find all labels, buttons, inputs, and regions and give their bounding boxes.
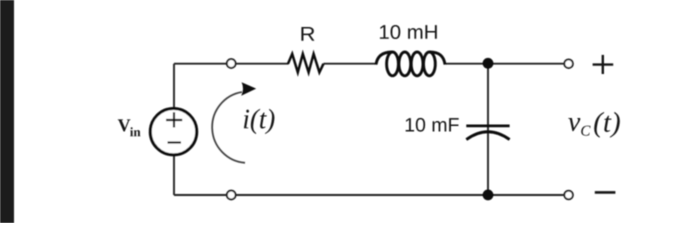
node circle bottom-left [227,191,236,200]
wire: left branch [173,64,175,195]
source minus sign [168,141,182,143]
capacitor C1 (10 mF) straight plate [466,125,509,128]
wire: top, resistor to inductor [324,63,378,65]
node circle top-left [227,59,236,68]
open terminal top-right [564,59,573,68]
wire: top, inductor to right terminal [445,63,564,65]
label R [301,27,314,41]
label v_C(t) [568,112,620,138]
arc arrowhead [241,82,256,96]
label V_in [118,119,141,136]
left black sidebar [0,0,14,223]
junction node bottom (capacitor to return) [483,190,494,201]
voltage source V_in circle [150,109,196,155]
open terminal bottom-right [564,191,573,200]
capacitor C1 (10 mF) curved plate [466,132,509,140]
label 10 mF [406,118,459,132]
source plus sign [166,112,182,127]
wire: bottom return [174,194,564,196]
junction node top (wire to capacitor) [483,58,494,69]
output polarity plus sign [593,55,614,74]
label i(t) [244,109,275,134]
wire: top, source corner to resistor [174,63,289,65]
mesh current arc i(t) [212,92,245,163]
inductor L1 (10 mH) [376,52,445,76]
wire: capacitor branch [487,64,489,195]
resistor R [288,54,324,72]
output polarity minus sign [595,191,616,194]
label 10 mH [380,25,437,39]
